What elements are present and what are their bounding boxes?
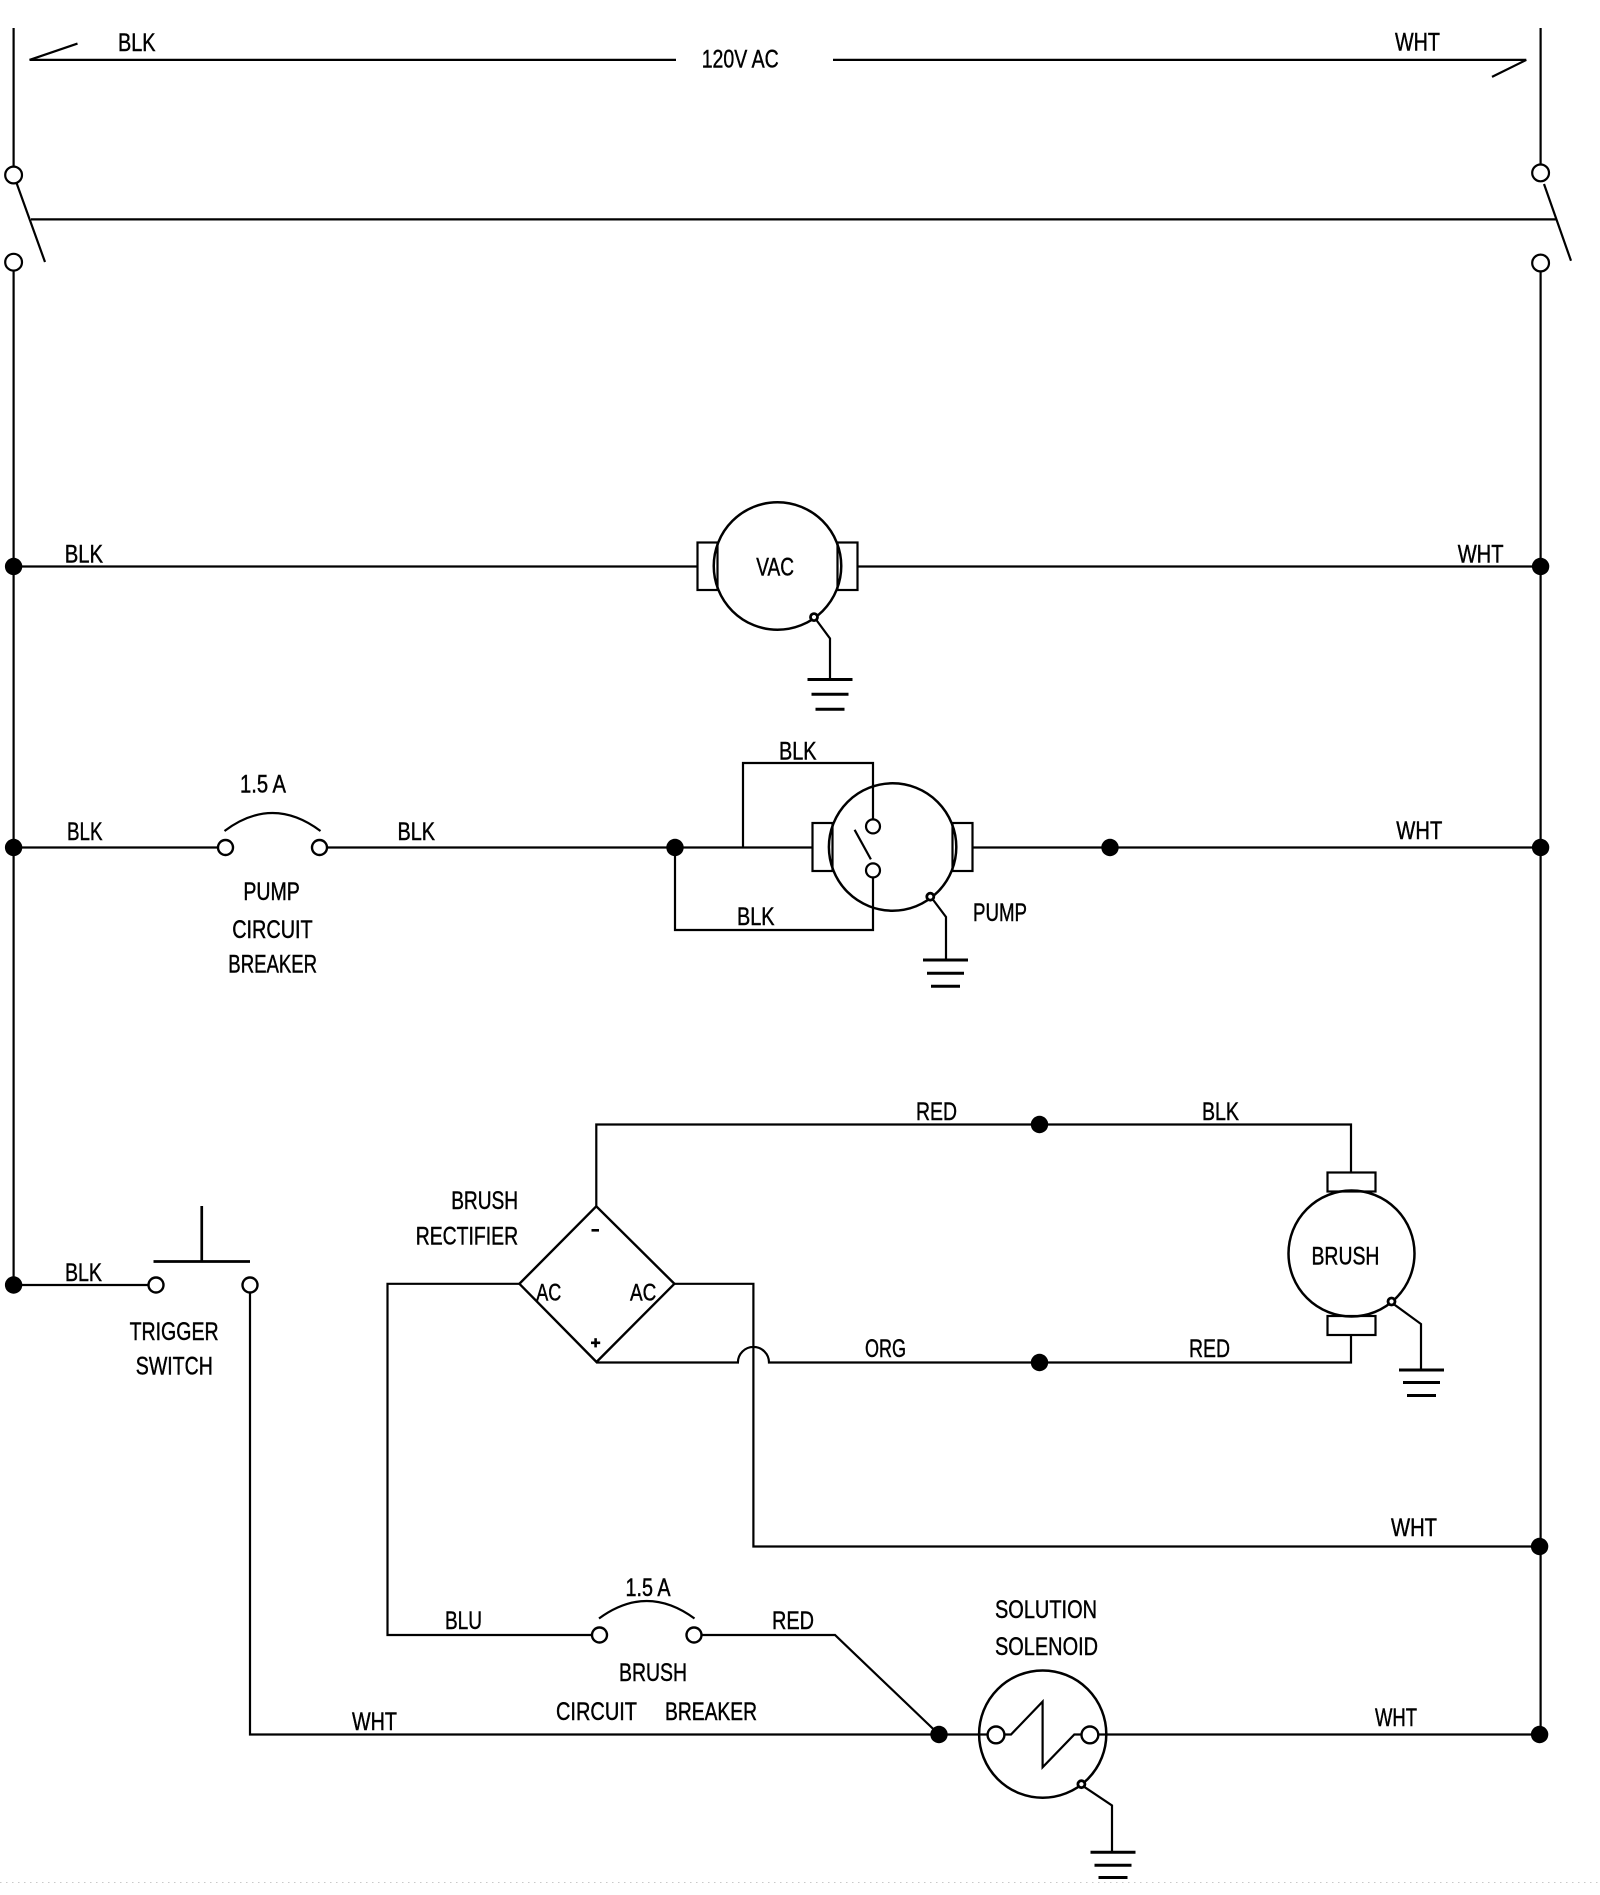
- node: right bus junction row 1: [1532, 558, 1549, 575]
- svg-text:BRUSH: BRUSH: [451, 1187, 518, 1215]
- svg-text:BLK: BLK: [737, 903, 775, 931]
- circuit breaker (brush): left contact: [592, 1628, 607, 1643]
- svg-text:1.5 A: 1.5 A: [240, 771, 286, 799]
- wire: right bus vertical: [1539, 271, 1541, 1735]
- trigger switch: pushbutton bar: [154, 1260, 251, 1263]
- circuit breaker (brush): right contact: [687, 1628, 702, 1643]
- wire: trigger switch down to bottom rail: [250, 1293, 988, 1735]
- svg-text:BLK: BLK: [398, 818, 436, 846]
- node: junction right of pump: [1101, 839, 1118, 856]
- circuit breaker (pump): left contact: [218, 840, 233, 855]
- node: junction on top run: [1031, 1116, 1048, 1133]
- plug switch left: blade: [17, 183, 46, 262]
- svg-text:RED: RED: [772, 1607, 814, 1635]
- trigger switch: right contact: [243, 1278, 258, 1293]
- motor BRUSH: bottom brush block: [1328, 1316, 1376, 1335]
- ground (brush motor frame): [1399, 1370, 1444, 1396]
- svg-text:WHT: WHT: [1458, 540, 1504, 568]
- svg-text:CIRCUIT: CIRCUIT: [556, 1698, 637, 1726]
- circuit breaker (brush): arc element: [599, 1601, 695, 1619]
- trigger switch: pushbutton stem: [200, 1206, 203, 1262]
- svg-text:BLK: BLK: [779, 738, 817, 766]
- circuit breaker (pump): right contact: [312, 840, 327, 855]
- motor BRUSH: body circle: [1289, 1191, 1415, 1317]
- motor PUMP: internal switch blade: [855, 830, 871, 860]
- plug switch right: top contact: [1532, 165, 1549, 182]
- label line: BLK lead pointer: [30, 59, 677, 61]
- node: junction at pump loop: [666, 839, 683, 856]
- svg-text:SWITCH: SWITCH: [136, 1352, 213, 1380]
- harpoon arrowhead left: [30, 44, 78, 60]
- wire: crossbar between plug blades: [31, 218, 1557, 220]
- plug switch left: top contact: [5, 167, 22, 184]
- svg-text:RED: RED: [916, 1098, 957, 1126]
- svg-text:BLK: BLK: [65, 541, 104, 569]
- wire: row2 to breaker: [14, 846, 218, 848]
- wire: VAC ground lead: [816, 620, 830, 680]
- plug switch left: bottom contact: [5, 254, 22, 271]
- motor PUMP: body circle: [829, 783, 956, 910]
- motor VAC: body circle: [714, 502, 842, 630]
- motor VAC: left brush block: [698, 543, 718, 591]
- label line: WHT lead pointer: [833, 59, 1526, 61]
- svg-text:BLK: BLK: [67, 818, 103, 846]
- plug switch right: blade: [1544, 184, 1571, 261]
- svg-text:WHT: WHT: [1375, 1704, 1417, 1732]
- wire: pump motor to right bus: [973, 846, 1541, 848]
- harpoon arrowhead right: [1492, 60, 1526, 77]
- solution solenoid: right terminal: [1082, 1727, 1099, 1744]
- svg-text:PUMP: PUMP: [973, 899, 1027, 927]
- svg-text:TRIGGER: TRIGGER: [130, 1318, 219, 1346]
- ground (VAC motor frame): [808, 680, 853, 710]
- svg-text:SOLUTION: SOLUTION: [995, 1596, 1097, 1624]
- wire: left bus vertical: [13, 271, 15, 1285]
- motor PUMP: left brush block: [813, 823, 833, 871]
- wire: rectifier AC right to right bus (WHT): [674, 1284, 1539, 1547]
- svg-text:WHT: WHT: [1391, 1514, 1437, 1542]
- svg-text:BLK: BLK: [65, 1259, 102, 1287]
- node: left bus junction trigger row: [5, 1276, 22, 1293]
- motor BRUSH: frame terminal dot: [1388, 1298, 1395, 1305]
- svg-text:BREAKER: BREAKER: [228, 951, 317, 979]
- svg-text:ORG: ORG: [865, 1335, 906, 1363]
- scan artifact: faint dotted line at page bottom: [0, 1882, 1600, 1884]
- wire: pump centrifugal switch loop (bottom): [675, 848, 873, 931]
- svg-text:RED: RED: [1189, 1335, 1230, 1363]
- svg-text:WHT: WHT: [1396, 817, 1442, 845]
- wire: rectifier AC left down to brush breaker (BLU): [388, 1284, 593, 1635]
- node: right bus junction row 2: [1532, 839, 1549, 856]
- ground (pump motor frame): [923, 960, 968, 986]
- node: right bus junction WHT run: [1531, 1538, 1548, 1555]
- wire: bus to trigger switch: [14, 1284, 149, 1286]
- motor BRUSH: top brush block: [1328, 1173, 1376, 1192]
- motor PUMP: frame terminal dot: [927, 893, 934, 900]
- node: left bus junction row 2: [5, 839, 22, 856]
- wire: rectifier plus to brush motor (ORG run with hop): [597, 1335, 1352, 1363]
- rectifier BR1: diamond body: [519, 1206, 674, 1362]
- wire: row1 right segment: [858, 565, 1541, 567]
- svg-text:120V AC: 120V AC: [702, 46, 779, 74]
- solution solenoid: left terminal: [988, 1727, 1005, 1744]
- solution solenoid: coil zigzag: [1004, 1702, 1081, 1768]
- wire: pump ground lead: [933, 899, 947, 960]
- svg-text:RECTIFIER: RECTIFIER: [416, 1223, 518, 1251]
- motor VAC: frame terminal dot: [811, 614, 818, 621]
- svg-text:CIRCUIT: CIRCUIT: [232, 916, 313, 944]
- wire: left hot lead vertical (top): [13, 28, 15, 167]
- node: junction on ORG run: [1031, 1354, 1048, 1371]
- node: junction at solenoid input: [930, 1726, 947, 1743]
- svg-text:BLK: BLK: [1202, 1098, 1239, 1126]
- motor PUMP: internal switch top contact: [866, 819, 880, 833]
- svg-text:BREAKER: BREAKER: [665, 1698, 757, 1726]
- svg-text:WHT: WHT: [1395, 28, 1440, 56]
- svg-text:BRUSH: BRUSH: [619, 1659, 687, 1687]
- svg-text:BLU: BLU: [445, 1607, 482, 1635]
- svg-text:1.5 A: 1.5 A: [626, 1574, 671, 1602]
- node: left bus junction row 1: [5, 558, 22, 575]
- motor PUMP: right brush block: [953, 823, 973, 871]
- svg-text:SOLENOID: SOLENOID: [995, 1633, 1098, 1661]
- wire: breaker to pump motor: [327, 846, 813, 848]
- solution solenoid: frame terminal dot: [1078, 1781, 1085, 1788]
- svg-text:WHT: WHT: [352, 1708, 397, 1736]
- wire: brush breaker to solenoid junction: [702, 1635, 940, 1735]
- svg-text:VAC: VAC: [756, 554, 794, 582]
- wire: right neutral lead vertical (top): [1539, 28, 1541, 165]
- motor VAC: right brush block: [838, 543, 858, 591]
- rectifier BR1: plus terminal mark: [591, 1342, 600, 1345]
- wire: brush ground lead: [1394, 1304, 1422, 1370]
- rectifier BR1: minus terminal mark: [592, 1229, 600, 1232]
- trigger switch: left contact: [149, 1278, 164, 1293]
- wire: row1 left segment: [14, 565, 698, 567]
- wire: solenoid to right bus: [1098, 1733, 1539, 1735]
- motor PUMP: internal switch bottom contact: [866, 863, 880, 877]
- node: right bus junction bottom: [1531, 1726, 1548, 1743]
- circuit breaker (pump): arc element: [225, 813, 321, 831]
- svg-text:AC: AC: [536, 1280, 561, 1307]
- wire: solenoid ground lead: [1084, 1787, 1112, 1853]
- wire: rectifier minus to brush motor (top run): [596, 1125, 1351, 1207]
- ground (solution solenoid frame): [1091, 1852, 1136, 1877]
- svg-text:BLK: BLK: [118, 29, 156, 57]
- wire: pump start winding loop (top): [743, 763, 873, 848]
- svg-text:PUMP: PUMP: [243, 878, 299, 906]
- plug switch right: bottom contact: [1532, 255, 1549, 272]
- svg-text:BRUSH: BRUSH: [1312, 1242, 1380, 1270]
- svg-text:AC: AC: [630, 1280, 656, 1307]
- solution solenoid: body circle: [979, 1671, 1106, 1798]
